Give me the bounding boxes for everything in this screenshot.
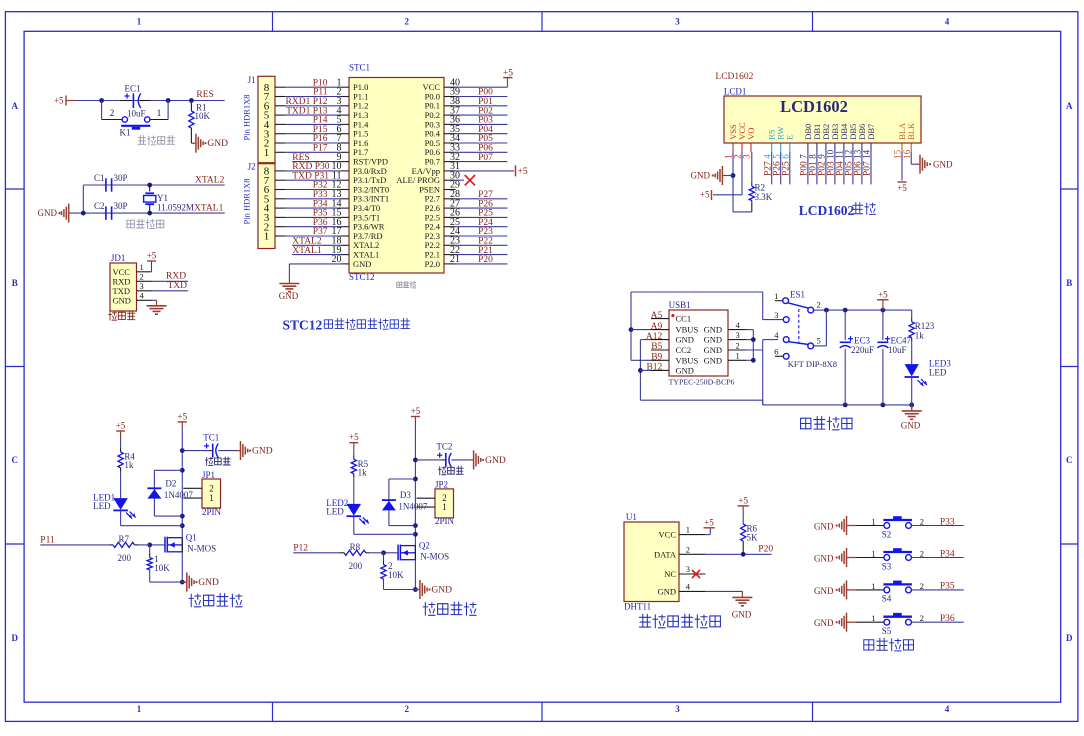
svg-text:LED: LED	[93, 501, 111, 511]
svg-text:B5: B5	[651, 342, 662, 352]
svg-text:GND: GND	[279, 291, 299, 301]
svg-text:4: 4	[686, 581, 691, 591]
svg-text:+5: +5	[704, 517, 714, 527]
svg-text:S5: S5	[882, 626, 892, 636]
svg-text:2: 2	[736, 340, 740, 350]
svg-text:STC12: STC12	[283, 318, 323, 333]
svg-text:P20: P20	[758, 545, 773, 555]
svg-text:5K: 5K	[747, 533, 759, 543]
svg-text:200: 200	[118, 553, 132, 563]
svg-text:C: C	[1066, 455, 1073, 465]
svg-text:GND: GND	[732, 610, 752, 620]
svg-text:RXD: RXD	[166, 272, 186, 282]
svg-text:GND: GND	[431, 586, 452, 596]
svg-text:B: B	[12, 278, 18, 288]
svg-text:GND: GND	[485, 456, 506, 466]
svg-text:P12: P12	[293, 544, 308, 554]
svg-text:2: 2	[209, 483, 214, 493]
svg-text:D: D	[1066, 633, 1073, 643]
svg-text:TC1: TC1	[203, 432, 219, 442]
svg-text:1: 1	[774, 291, 778, 301]
svg-text:3: 3	[686, 564, 690, 574]
svg-text:U1: U1	[626, 512, 637, 522]
svg-text:+5: +5	[411, 406, 421, 416]
svg-text:P17: P17	[313, 144, 328, 154]
svg-text:4: 4	[945, 17, 950, 27]
svg-text:1: 1	[871, 613, 875, 623]
svg-text:JP2: JP2	[435, 480, 448, 490]
svg-text:C: C	[11, 455, 18, 465]
svg-text:3: 3	[675, 704, 680, 714]
svg-text:TXD: TXD	[113, 286, 130, 296]
svg-text:XTAL1: XTAL1	[194, 203, 224, 213]
svg-text:K1: K1	[120, 128, 131, 138]
svg-text:P07: P07	[863, 161, 873, 176]
svg-text:P36: P36	[940, 614, 955, 624]
svg-text:GND: GND	[658, 586, 676, 596]
svg-text:XTAL1: XTAL1	[292, 246, 322, 256]
svg-text:1k: 1k	[358, 468, 368, 478]
svg-text:1: 1	[871, 581, 875, 591]
svg-text:P07: P07	[478, 153, 493, 163]
svg-text:2PIN: 2PIN	[435, 516, 455, 526]
svg-text:P34: P34	[940, 549, 955, 559]
svg-text:10K: 10K	[388, 570, 404, 580]
svg-text:RXD: RXD	[113, 276, 131, 286]
svg-text:Y1: Y1	[157, 193, 168, 203]
svg-text:DB7: DB7	[866, 124, 876, 140]
svg-text:3: 3	[774, 310, 778, 320]
svg-text:STC12: STC12	[349, 272, 375, 282]
svg-text:P2.0: P2.0	[425, 259, 440, 269]
svg-text:JP1: JP1	[202, 470, 215, 480]
svg-text:GND: GND	[207, 139, 228, 149]
svg-text:3: 3	[742, 154, 752, 159]
svg-text:LED: LED	[929, 368, 947, 378]
svg-text:10uF: 10uF	[127, 109, 146, 119]
svg-text:14: 14	[862, 149, 872, 159]
svg-text:+5: +5	[503, 68, 513, 78]
svg-text:1: 1	[264, 147, 270, 159]
svg-text:EC1: EC1	[125, 84, 141, 94]
svg-text:2: 2	[405, 704, 410, 714]
svg-text:Q1: Q1	[186, 533, 197, 543]
svg-text:220uF: 220uF	[851, 345, 874, 355]
svg-text:4: 4	[945, 704, 950, 714]
svg-text:GND: GND	[704, 345, 722, 355]
svg-text:NC: NC	[664, 569, 676, 579]
svg-text:2: 2	[110, 108, 115, 118]
svg-text:1k: 1k	[124, 460, 133, 470]
svg-text:GND: GND	[704, 355, 722, 365]
svg-text:C2: C2	[94, 201, 105, 211]
svg-text:A12: A12	[646, 332, 663, 342]
svg-text:E: E	[785, 135, 795, 140]
svg-text:B: B	[1066, 278, 1072, 288]
svg-text:VBUS: VBUS	[676, 325, 699, 335]
svg-text:P20: P20	[478, 255, 493, 265]
svg-text:LCD1602: LCD1602	[799, 203, 855, 218]
svg-text:LCD1602: LCD1602	[715, 72, 753, 82]
svg-text:16: 16	[902, 149, 912, 159]
svg-text:+5: +5	[897, 183, 907, 193]
svg-text:ES1: ES1	[790, 290, 805, 300]
svg-text:LCD1602: LCD1602	[780, 97, 848, 116]
svg-text:C1: C1	[94, 173, 105, 183]
svg-text:P33: P33	[940, 517, 955, 527]
svg-text:STC1: STC1	[349, 63, 370, 73]
svg-text:N-MOS: N-MOS	[420, 551, 449, 561]
svg-text:DHT11: DHT11	[624, 602, 651, 612]
svg-text:1: 1	[209, 493, 214, 503]
svg-text:6: 6	[774, 347, 778, 357]
svg-text:5: 5	[817, 336, 821, 346]
svg-text:GND: GND	[814, 586, 834, 596]
svg-text:6: 6	[781, 154, 791, 159]
svg-text:LED: LED	[326, 507, 344, 517]
svg-text:+5: +5	[518, 167, 528, 177]
svg-text:GND: GND	[691, 171, 711, 181]
svg-text:GND: GND	[814, 522, 834, 532]
svg-text:DATA: DATA	[654, 549, 677, 559]
svg-text:P25: P25	[782, 161, 792, 176]
svg-text:GND: GND	[814, 554, 834, 564]
svg-text:GND: GND	[933, 159, 953, 169]
svg-text:KFT DIP-8X8: KFT DIP-8X8	[788, 359, 837, 369]
svg-text:+5: +5	[878, 289, 888, 299]
svg-text:GND: GND	[676, 365, 694, 375]
svg-text:1: 1	[736, 351, 740, 361]
svg-text:1: 1	[686, 525, 690, 535]
svg-text:GND: GND	[676, 335, 694, 345]
svg-text:B9: B9	[651, 353, 662, 363]
svg-text:3: 3	[736, 330, 740, 340]
svg-text:Q2: Q2	[419, 540, 430, 550]
svg-text:GND: GND	[38, 208, 58, 218]
svg-text:GND: GND	[198, 578, 219, 588]
svg-text:S2: S2	[882, 529, 892, 539]
svg-text:1: 1	[264, 231, 270, 243]
svg-text:B12: B12	[646, 363, 662, 373]
svg-text:+5: +5	[349, 432, 359, 442]
svg-text:GND: GND	[704, 335, 722, 345]
svg-text:10uF: 10uF	[888, 345, 907, 355]
svg-text:R8: R8	[350, 542, 361, 552]
svg-text:RES: RES	[196, 90, 213, 100]
svg-text:JD1: JD1	[111, 253, 126, 263]
svg-text:1: 1	[871, 517, 875, 527]
svg-text:XTAL2: XTAL2	[195, 176, 225, 186]
svg-text:USB1: USB1	[669, 300, 691, 310]
svg-text:GND: GND	[814, 618, 834, 628]
svg-text:Pin HDR1X8: Pin HDR1X8	[242, 178, 252, 224]
svg-text:LCD1: LCD1	[724, 87, 747, 97]
svg-text:Pin HDR1X8: Pin HDR1X8	[242, 94, 252, 140]
svg-text:TYPEC-250D-BCP6: TYPEC-250D-BCP6	[669, 378, 735, 387]
svg-text:+5: +5	[178, 411, 188, 421]
svg-text:A5: A5	[651, 311, 663, 321]
svg-text:1: 1	[157, 108, 162, 118]
svg-text:S4: S4	[882, 594, 892, 604]
svg-text:11.0592M: 11.0592M	[157, 203, 194, 213]
svg-text:N-MOS: N-MOS	[187, 544, 216, 554]
svg-text:3: 3	[140, 281, 144, 291]
svg-text:+5: +5	[738, 495, 748, 505]
svg-text:A: A	[11, 101, 18, 111]
svg-text:TXD: TXD	[168, 281, 188, 291]
svg-text:VO: VO	[746, 128, 756, 140]
svg-text:VBUS: VBUS	[676, 355, 699, 365]
svg-text:2: 2	[140, 272, 144, 282]
svg-text:3: 3	[675, 17, 680, 27]
svg-text:2: 2	[686, 544, 690, 554]
svg-text:2: 2	[817, 300, 821, 310]
svg-text:VCC: VCC	[659, 530, 677, 540]
svg-text:R7: R7	[118, 534, 129, 544]
svg-text:TC2: TC2	[436, 442, 452, 452]
svg-text:CC1: CC1	[676, 314, 692, 324]
svg-text:R123: R123	[915, 321, 935, 331]
svg-text:S3: S3	[882, 561, 892, 571]
svg-text:3.3K: 3.3K	[755, 192, 773, 202]
svg-text:1: 1	[871, 549, 875, 559]
svg-text:1: 1	[442, 502, 447, 512]
svg-text:J2: J2	[248, 162, 256, 172]
svg-text:A9: A9	[651, 322, 663, 332]
svg-text:D3: D3	[400, 490, 411, 500]
svg-text:D2: D2	[165, 478, 176, 488]
svg-text:1: 1	[137, 17, 142, 27]
svg-text:CC2: CC2	[676, 345, 692, 355]
svg-text:2PIN: 2PIN	[202, 507, 222, 517]
svg-text:GND: GND	[113, 295, 131, 305]
svg-text:+5: +5	[116, 421, 126, 431]
svg-text:VCC: VCC	[113, 267, 131, 277]
svg-text:GND: GND	[704, 325, 722, 335]
svg-text:A: A	[1066, 101, 1073, 111]
svg-text:GND: GND	[252, 447, 273, 457]
svg-text:P11: P11	[40, 536, 55, 546]
svg-text:30P: 30P	[114, 173, 128, 183]
svg-text:1: 1	[137, 704, 142, 714]
svg-text:D: D	[11, 633, 18, 643]
svg-text:2: 2	[405, 17, 410, 27]
svg-text:GND: GND	[901, 421, 921, 431]
svg-text:10K: 10K	[195, 111, 211, 121]
svg-text:BLK: BLK	[906, 122, 916, 140]
svg-text:J1: J1	[248, 75, 256, 85]
svg-text:30P: 30P	[114, 201, 128, 211]
svg-text:+5: +5	[147, 251, 157, 261]
svg-text:+5: +5	[700, 190, 710, 200]
svg-text:1k: 1k	[915, 331, 925, 341]
svg-text:10K: 10K	[154, 563, 170, 573]
svg-text:+5: +5	[54, 96, 64, 106]
svg-text:GND: GND	[353, 259, 371, 269]
svg-text:1: 1	[140, 262, 144, 272]
svg-text:200: 200	[349, 561, 363, 571]
svg-text:P35: P35	[940, 582, 955, 592]
